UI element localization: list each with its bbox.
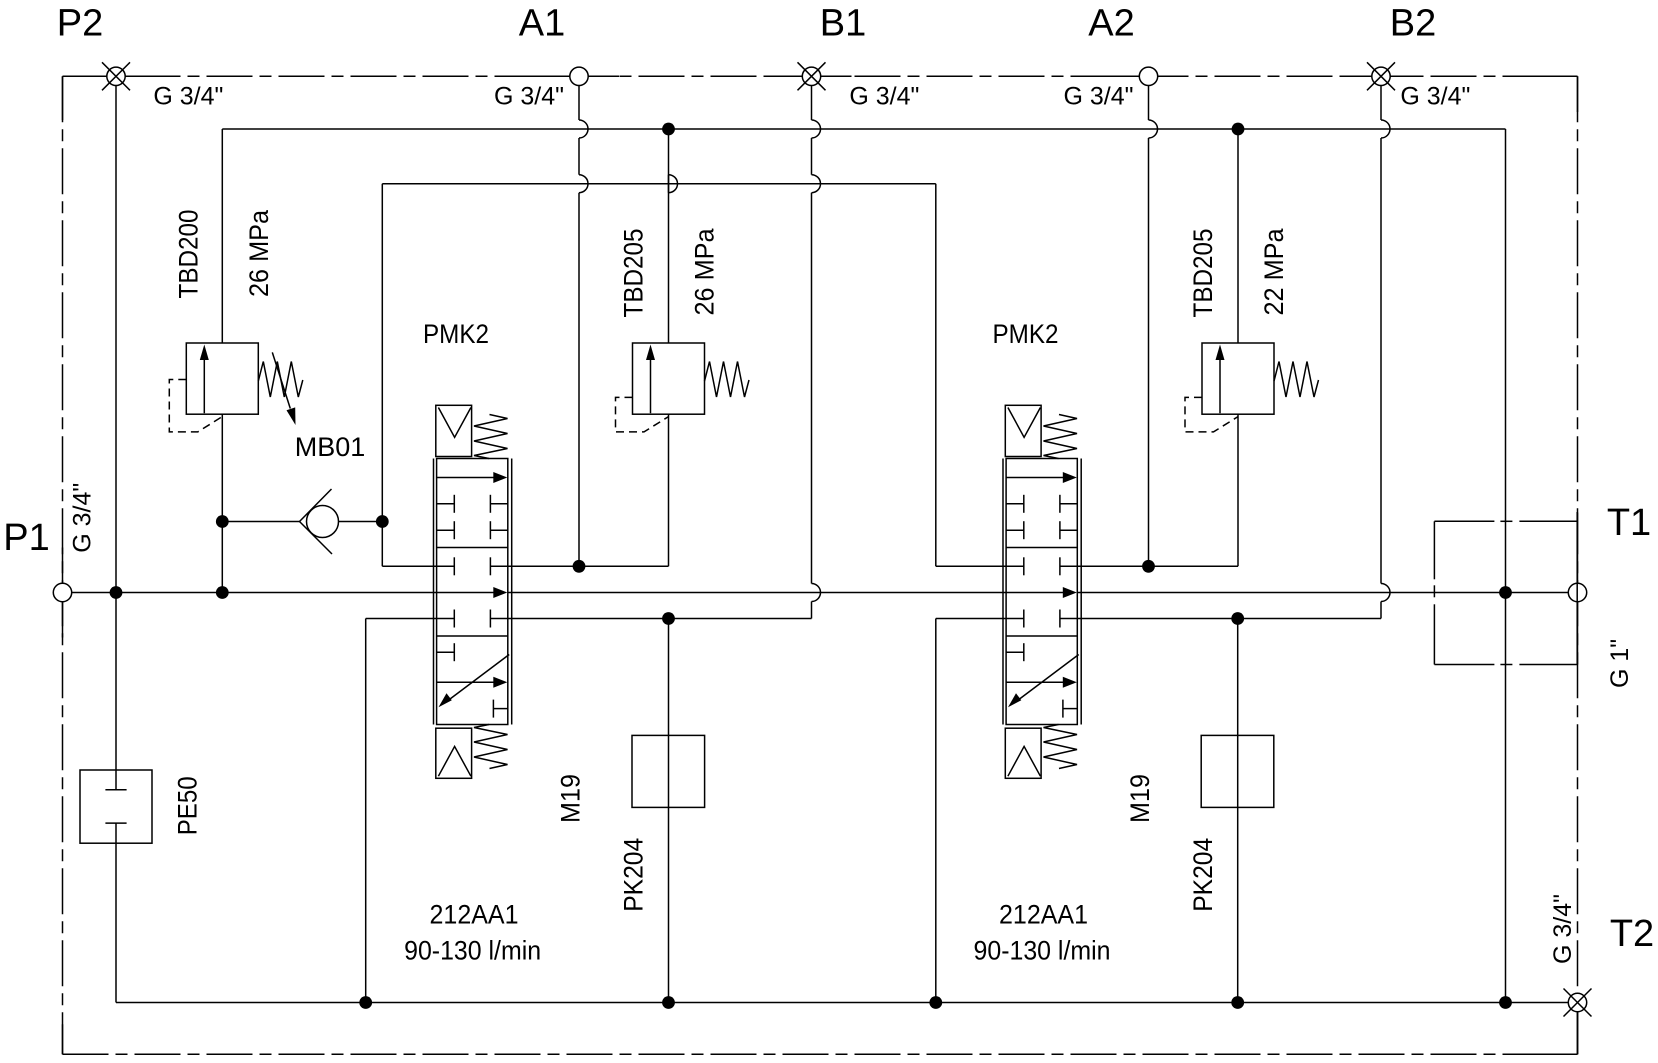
orifice cavity M19/PK204-1 (box on B-line drop): [632, 735, 705, 807]
wire T1 drop (tank rail down through T1 junction to tank line): [1505, 129, 1507, 1003]
label B1: [820, 3, 866, 45]
wire B1 drop (B1 port down to B line, hops over rails and P line): [812, 86, 821, 619]
plug element PE50 (blocked cavity): [80, 770, 152, 843]
label M19-2 (rotated): [1125, 774, 1155, 823]
svg-text:PK204: PK204: [1188, 838, 1218, 912]
wire A line 1 (valve 1 to A1 junction and TBD205 riser): [508, 565, 669, 567]
wire check valve branch (TBD200 line to pilot drop): [222, 521, 382, 523]
wire TBD205-1 riser (A line up through relief to tank rail, hop over pilot rail): [669, 129, 678, 566]
svg-text:G 3/4": G 3/4": [494, 82, 564, 110]
label PK204-2 (rotated): [1188, 838, 1218, 912]
label G 3/4" at T2 (rotated): [1549, 894, 1577, 964]
junction node 3 at (222,592): [216, 586, 229, 599]
label G 1" at T1 (rotated): [1606, 639, 1634, 688]
port T2 (circle with cross): [1564, 989, 1592, 1017]
junction node 12 at (366,1002): [359, 996, 372, 1009]
wire P line middle (valve 1 to valve 2): [508, 592, 1006, 594]
label 212AA1 of valve 1: [430, 900, 519, 930]
junction node 6 at (668,129): [662, 123, 675, 136]
svg-text:P2: P2: [57, 3, 103, 45]
junction node 1 at (116,592): [110, 586, 123, 599]
wire TBD205-2 riser (A line 2 up through relief to tank rail): [1237, 129, 1239, 566]
port A2: [1139, 67, 1157, 85]
svg-text:A1: A1: [519, 3, 565, 45]
label 212AA1 of valve 2: [999, 900, 1088, 930]
label A2: [1088, 3, 1134, 45]
label 26 MPa of TBD200 (rotated): [244, 209, 274, 297]
junction node 11 at (1506,592): [1499, 586, 1512, 599]
wire TBD200 outlet down (box to P line): [221, 414, 223, 592]
svg-text:G 3/4": G 3/4": [68, 483, 96, 553]
label P1: [3, 517, 49, 559]
label G 3/4" at A2: [1063, 82, 1133, 110]
svg-text:TBD205: TBD205: [618, 229, 648, 318]
svg-text:M19: M19: [1125, 774, 1155, 823]
svg-text:90-130 l/min: 90-130 l/min: [974, 936, 1111, 966]
label M19-1 (rotated): [556, 774, 586, 823]
wire M19-1 drop (B line 1 through M19 box to tank line): [668, 619, 670, 1003]
port P2 (test point, circle with cross): [102, 62, 130, 90]
svg-text:G 3/4": G 3/4": [1400, 82, 1470, 110]
svg-text:P1: P1: [3, 517, 49, 559]
svg-text:G 3/4": G 3/4": [1063, 82, 1133, 110]
wire A line 2 (valve 2 to A2 junction and TBD205-2 riser): [1077, 565, 1238, 567]
svg-text:26 MPa: 26 MPa: [244, 209, 274, 297]
label T2: [1610, 913, 1654, 955]
junction node 7 at (668,618): [662, 612, 675, 625]
wire M19-2 drop (B line 2 through M19 box to tank line): [1237, 619, 1239, 1003]
label G 3/4" at P1 (rotated): [68, 483, 96, 553]
wire tank line (bottom return line to T2): [116, 1002, 1568, 1004]
wire tank rail (relief outlets to T1 drop): [222, 128, 1505, 130]
junction node 16 at (1506,1002): [1499, 996, 1512, 1009]
junction node 2 at (222,522): [216, 515, 229, 528]
port A1: [570, 67, 588, 85]
wire A1 drop (A1 port down to A line, hops over rails): [579, 86, 588, 567]
label PMK2-2: [993, 319, 1059, 349]
port P1: [53, 583, 71, 601]
check valve MB01: [300, 489, 339, 554]
label 90-130 l/min of valve 1: [404, 936, 541, 966]
svg-text:MB01: MB01: [295, 432, 366, 462]
junction node 5 at (579,566): [573, 560, 586, 573]
wire P line left (P1 to valve 1): [72, 592, 437, 594]
svg-text:22 MPa: 22 MPa: [1259, 228, 1289, 316]
wire B line 1 (valve 1 to B1 drop): [508, 618, 812, 620]
port B2 (circle with cross): [1367, 62, 1395, 90]
wire B line 2 (valve 2 to B2 drop): [1077, 618, 1381, 620]
T1 gallery chamber (chain-line box at T1): [1434, 512, 1577, 665]
wire TBD200 riser (tank rail down to TBD200 inlet box): [221, 129, 223, 343]
svg-text:T2: T2: [1610, 913, 1654, 955]
wire PE50 branch (P line down through PE50 to tank line): [115, 593, 117, 1003]
label G 3/4" at A1: [494, 82, 564, 110]
label G 3/4" at B2: [1400, 82, 1470, 110]
junction node 8 at (1148,566): [1142, 560, 1155, 573]
svg-text:M19: M19: [556, 774, 586, 823]
relief valve TBD205-2 (22 MPa): [1185, 343, 1319, 432]
wire tank drop left (valve 1 tank port to tank line): [366, 619, 437, 1003]
wire pilot rail (check valve output rail): [382, 183, 936, 185]
label B2: [1390, 3, 1436, 45]
svg-text:26 MPa: 26 MPa: [690, 228, 720, 316]
svg-text:TBD200: TBD200: [173, 210, 203, 299]
svg-text:212AA1: 212AA1: [430, 900, 519, 930]
svg-text:G 3/4": G 3/4": [153, 82, 223, 110]
wire pilot drop right (pilot rail end down to valve 2 pilot port): [936, 184, 1006, 567]
wire P line right (valve 2 to T1): [1077, 592, 1568, 594]
wire tank drop right (valve 2 tank port to tank line): [936, 619, 1006, 1003]
label PK204-1 (rotated): [618, 838, 648, 912]
svg-text:212AA1: 212AA1: [999, 900, 1088, 930]
junction node 10 at (1238,129): [1232, 123, 1245, 136]
junction node 13 at (668,1002): [662, 996, 675, 1009]
svg-text:PMK2: PMK2: [423, 319, 489, 349]
label 90-130 l/min of valve 2: [974, 936, 1111, 966]
directional valve PMK2-2 (4/3 solenoid valve): [1003, 405, 1081, 778]
wire P2 drop (P2 port to P line): [115, 86, 117, 593]
label G 3/4" at B1: [849, 82, 919, 110]
relief valve TBD200 (26 MPa, adjustable): [169, 343, 302, 432]
orifice cavity M19/PK204-2 (box on B-line drop): [1201, 735, 1274, 807]
junction node 9 at (1238,618): [1231, 612, 1244, 625]
wire A2 drop (A2 port down to A line 2, hop over tank rail): [1149, 86, 1158, 567]
label T1: [1607, 502, 1651, 544]
wire B2 drop (B2 port down to B line 2, hops): [1381, 86, 1390, 619]
svg-text:TBD205: TBD205: [1188, 229, 1218, 318]
svg-text:A2: A2: [1088, 3, 1134, 45]
svg-text:PK204: PK204: [618, 838, 648, 912]
wire pilot drop left (rail to valve 1 pilot port): [382, 184, 436, 567]
label TBD200 (rotated): [173, 210, 203, 299]
svg-text:G 1": G 1": [1606, 639, 1634, 688]
svg-text:T1: T1: [1607, 502, 1651, 544]
junction node 4 at (382,522): [376, 515, 389, 528]
svg-text:B2: B2: [1390, 3, 1436, 45]
svg-text:90-130 l/min: 90-130 l/min: [404, 936, 541, 966]
junction node 15 at (1238,1002): [1231, 996, 1244, 1009]
label TBD205-2 (rotated): [1188, 229, 1218, 318]
label P2: [57, 3, 103, 45]
svg-text:B1: B1: [820, 3, 866, 45]
label PMK2-1: [423, 319, 489, 349]
label TBD205-1 (rotated): [618, 229, 648, 318]
wire T2 stub (T2 port to border corner): [1577, 1012, 1579, 1055]
svg-text:G 3/4": G 3/4": [1549, 894, 1577, 964]
svg-text:PE50: PE50: [173, 776, 203, 835]
svg-text:PMK2: PMK2: [993, 319, 1059, 349]
label PE50 (rotated): [173, 776, 203, 835]
junction node 14 at (936,1002): [929, 996, 942, 1009]
label 22 MPa of TBD205-2 (rotated): [1259, 228, 1289, 316]
directional valve PMK2-1 (4/3 solenoid valve): [434, 405, 512, 778]
label A1: [519, 3, 565, 45]
port B1 (circle with cross): [798, 62, 826, 90]
label 26 MPa of TBD205-1 (rotated): [690, 228, 720, 316]
relief valve TBD205-1 (26 MPa): [616, 343, 750, 432]
port T1: [1568, 583, 1586, 601]
label MB01: [295, 432, 366, 462]
label G 3/4" at P2: [153, 82, 223, 110]
svg-text:G 3/4": G 3/4": [849, 82, 919, 110]
